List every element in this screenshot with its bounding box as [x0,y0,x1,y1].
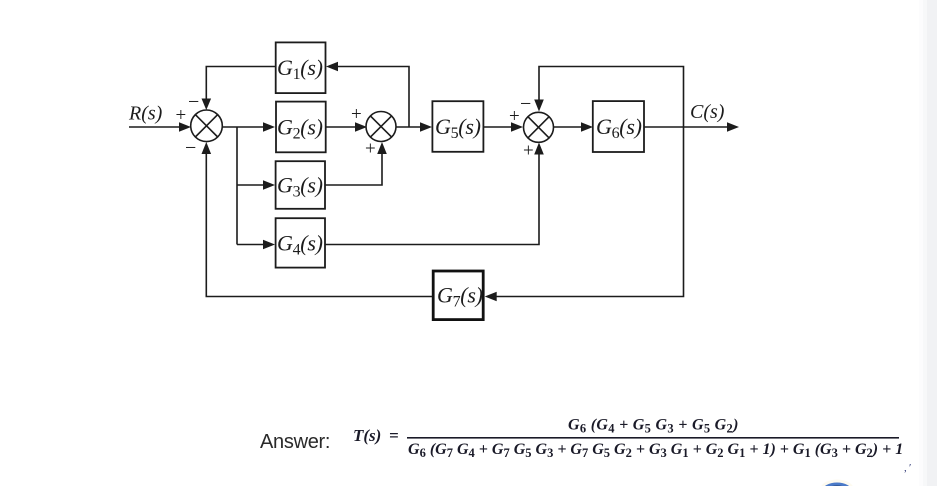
arrowhead into G1 right [326,62,338,72]
blue logo ellipse (cut off at bottom) [820,480,854,491]
svg-text:G3(s): G3(s) [277,173,323,201]
arrowhead into J3 [511,122,523,132]
page edge grey band [919,0,937,486]
svg-text:+: + [365,139,376,160]
svg-text:G5(s): G5(s) [435,114,481,142]
block G3 [276,161,325,209]
svg-text:−: − [520,93,531,115]
svg-text:+: + [523,141,534,162]
arrowhead into G5 [420,122,432,132]
svg-text:Answer:: Answer: [260,431,330,453]
arrowhead into J2 [355,122,367,132]
summing junction J3 [524,112,554,142]
svg-text:G6 (G7 G4 + G7 G5 G3 + G7 G5 G: G6 (G7 G4 + G7 G5 G3 + G7 G5 G2 + G3 G1 … [408,441,903,460]
summing junction J1 [191,110,223,142]
svg-text:G6(s): G6(s) [596,114,642,142]
arrowhead into J1 bottom [202,142,212,154]
svg-text:T(s) =: T(s) = [353,426,399,445]
wire G3 output up into J2 [325,152,382,185]
wire J2 output to G5 with tap to G1 [336,67,422,128]
svg-text:−: − [185,137,196,159]
svg-text:G6 (G4 + G5 G3 + G5 G2): G6 (G4 + G5 G3 + G5 G2) [568,417,739,436]
svg-text:G4(s): G4(s) [277,230,323,258]
svg-text:G7(s): G7(s) [437,283,483,311]
wire feedback down to G7 [495,127,684,297]
arrowhead into J3 bottom [534,143,544,155]
wire G7 output up into J1 bottom [206,152,432,297]
wire G2 output to J2 [325,126,357,128]
svg-text:C(s): C(s) [690,101,725,123]
arrowhead into G4 [263,240,275,250]
svg-text:+: + [509,106,520,127]
arrowhead into G6 [581,122,593,132]
arrowhead at C(s) [727,122,739,132]
block G6 [593,101,644,152]
svg-text:R(s): R(s) [128,103,163,125]
fraction bar [407,437,899,439]
arrowhead into G2 [263,122,275,132]
arrowhead into G7 right [485,292,497,302]
arrowhead into J2 bottom [377,142,387,154]
block G5 [432,101,483,152]
wire top feedback from output node into J3 top [539,67,684,128]
svg-text:−: − [188,91,199,113]
wire J1 output to G2 [222,126,265,128]
wire G5 output to J3 [483,126,513,128]
wire G1 output into J1 top [206,67,275,101]
wire G4 output up into J3 bottom [325,153,539,245]
svg-text:, ′: , ′ [904,462,911,474]
arrowhead into G3 [263,180,275,190]
wire R(s) input [129,126,181,128]
summing junction J2 [366,112,396,142]
svg-text:G2(s): G2(s) [277,115,323,143]
svg-text:+: + [351,104,362,125]
block G4 [276,218,325,267]
block G2 [276,102,326,153]
svg-text:G1(s): G1(s) [277,55,323,83]
wire J3 output to G6 [554,126,583,128]
svg-text:+: + [176,105,187,126]
arrowhead into J1 [179,122,191,132]
block G7 (bold border) [433,271,483,320]
block G1 [276,42,326,93]
arrowhead into J1 top [202,99,212,111]
arrowhead into J3 top [534,100,544,112]
wire branch down from node to G3 and G4 [237,127,265,245]
wire G6 output to C(s) [644,126,728,128]
